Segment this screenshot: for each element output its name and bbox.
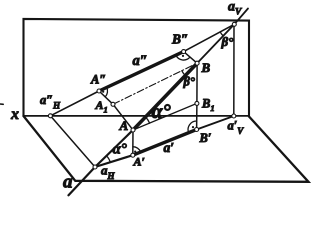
node a''_H [48,114,52,118]
arc angle alpha at a_H [107,156,111,162]
svg-text:β°: β° [221,34,235,49]
edge artifact dash [0,103,3,105]
wire projector A'' A1 A [99,91,133,130]
node B1 [195,101,199,105]
plane H outline [24,116,309,182]
wire projector a''_H to a_H [50,116,95,167]
svg-text:A: A [119,118,129,133]
node B [195,61,199,65]
right angle mark at A' [133,147,141,152]
svg-text:B′: B′ [199,131,212,145]
line a upper part [197,9,248,64]
svg-text:B1: B1 [201,97,215,114]
right angle mark at B'' [176,55,190,60]
svg-text:aH: aH [101,163,116,182]
node A1 [111,102,115,106]
projection a'' thick segment A'' B'' [99,52,184,91]
node B'' [182,50,186,54]
projection a' segment a_H A' [95,155,133,167]
wire A1 to B dash-dot [113,63,197,104]
node a_V [232,22,236,26]
wire projector a_V to a'_V [233,24,235,116]
svg-text:a″: a″ [133,53,148,69]
right angle mark at A'' [105,87,107,97]
line a segment A B thick [133,63,197,130]
projection a' thick segment A' B' [133,130,197,156]
svg-text:A1: A1 [95,98,108,115]
svg-text:A′: A′ [133,155,145,169]
svg-text:aV: aV [228,0,242,18]
plane V outline [24,19,250,117]
svg-text:β°: β° [183,75,195,89]
svg-text:a′: a′ [164,140,175,155]
svg-text:a: a [63,171,73,192]
node a_H [93,165,97,169]
arc angle beta at B [182,71,186,76]
projection a' segment B' a'_V [197,116,234,130]
node A'' [97,89,101,93]
svg-text:B: B [201,60,211,75]
svg-text:A″: A″ [90,73,106,87]
svg-text:a′V: a′V [228,119,245,137]
node A' [131,153,135,157]
svg-text:α°: α° [152,101,171,123]
node A [131,128,135,132]
x axis [24,115,250,117]
arc angle alpha at A [146,117,150,123]
wire B'' to B [184,52,198,64]
projection a'' thin part left [50,91,99,116]
svg-text:x: x [10,106,19,123]
arc angle beta at a_V [220,32,223,36]
line a lower part [69,130,134,195]
wire projector A to A' [132,130,134,155]
projection a'' thin part right [184,24,235,51]
svg-text:α°: α° [113,142,127,158]
wire projector B B1 B' [196,63,199,129]
wire A to B1 [133,103,197,130]
right angle mark at B' [188,121,197,133]
svg-text:a″H: a″H [40,93,61,111]
node B' [195,128,199,132]
node a'_V [232,114,236,118]
svg-text:B″: B″ [171,32,188,47]
